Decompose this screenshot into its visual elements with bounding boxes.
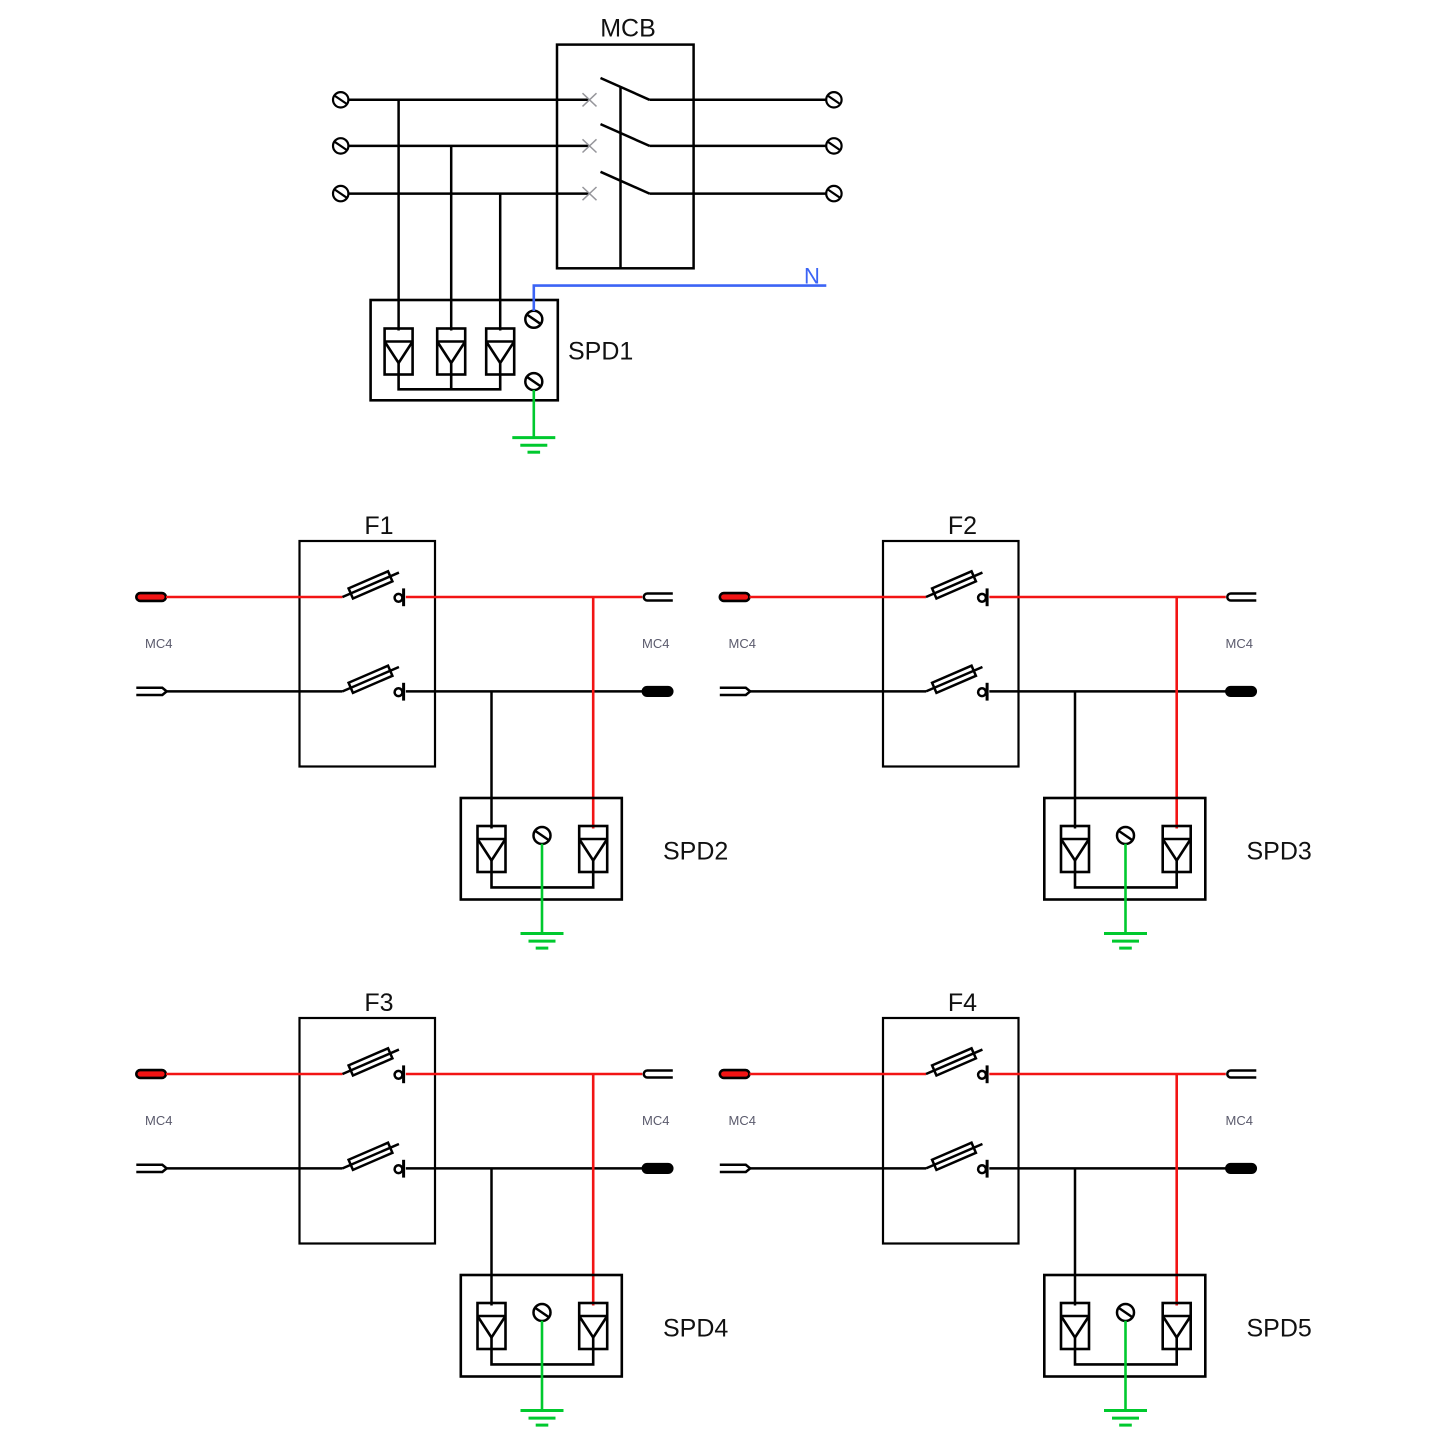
surge protector SPD4 box [461, 1275, 622, 1377]
SPD4 arrester element 2 [579, 1303, 607, 1349]
SPD5 earth screw terminal [1117, 1304, 1134, 1321]
svg-text:MC4: MC4 [145, 636, 172, 651]
fuse box F4 [883, 1018, 1019, 1244]
surge protector SPD3 box [1044, 798, 1205, 900]
MCB section [333, 92, 589, 201]
SPD4 earth screw terminal [534, 1304, 551, 1321]
wire black drop to SPD5 [1074, 1168, 1077, 1305]
SPD5 arrester element 2 [1163, 1303, 1191, 1349]
wire negative out of F2 [989, 690, 1226, 693]
wire negative out of F4 [989, 1167, 1226, 1170]
wire positive out (red) of F1 [406, 596, 643, 599]
MC4 connector plus (right) of F3 [644, 1071, 673, 1078]
SPD3 earth screw terminal [1117, 827, 1134, 844]
MC4 connector plus (left) of F4 [720, 1070, 750, 1078]
wire positive in (red) of F4 [750, 1073, 927, 1076]
ground symbol SPD3 [1104, 934, 1147, 949]
SPD4 bottom bus wire [492, 1349, 594, 1364]
MCB pole 1 fixed contact X [583, 93, 597, 106]
MC4 connector minus (left) of F2 [720, 688, 750, 695]
wire N (blue neutral) [534, 286, 827, 311]
wire negative out of F3 [406, 1167, 643, 1170]
fuse-switch F2b [924, 662, 987, 701]
svg-text:F2: F2 [948, 512, 977, 540]
wire negative in of F2 [750, 690, 927, 693]
wire MCB pole 3 output [650, 192, 827, 195]
wire red drop to SPD2 [592, 597, 595, 829]
SPD4 arrester element 1 [478, 1303, 506, 1349]
wire black drop to SPD2 [490, 691, 493, 828]
wire red drop to SPD4 [592, 1074, 595, 1306]
fuse-switch F1b [340, 662, 403, 701]
MC4 connector plus (left) of F1 [136, 593, 166, 601]
SPD1 neutral screw terminal [525, 311, 542, 328]
breaker MCB box [557, 45, 694, 269]
svg-text:MC4: MC4 [145, 1113, 172, 1128]
wire L3 input to MCB [349, 192, 590, 195]
wire positive in (red) of F1 [166, 596, 343, 599]
input terminal L2 [333, 138, 348, 153]
wire positive in (red) of F3 [166, 1073, 343, 1076]
fuse-switch F1a [340, 568, 403, 607]
MC4 connector minus (right) of F4 [1226, 1164, 1257, 1174]
svg-text:N: N [804, 264, 820, 289]
wire positive out (red) of F3 [406, 1073, 643, 1076]
SPD1 arrester element 1 [385, 329, 413, 375]
svg-text:F4: F4 [948, 989, 977, 1017]
output terminal T2 [826, 138, 841, 153]
ground symbol SPD5 [1104, 1411, 1147, 1426]
wire tap L3 down to SPD1 [499, 194, 502, 331]
svg-text:SPD5: SPD5 [1247, 1315, 1312, 1343]
SPD5 arrester element 1 [1061, 1303, 1089, 1349]
svg-text:MC4: MC4 [1226, 636, 1253, 651]
ground symbol SPD2 [521, 934, 564, 949]
wire positive out (red) of F4 [989, 1073, 1226, 1076]
ground symbol SPD1 [512, 438, 555, 453]
wire MCB pole 1 output [650, 99, 827, 102]
wire black drop to SPD4 [490, 1168, 493, 1305]
MCB pole 3 blade [601, 172, 650, 194]
wire SPD4 earth (green) [541, 1321, 544, 1411]
SPD3 arrester element 2 [1163, 826, 1191, 872]
wire negative in of F4 [750, 1167, 927, 1170]
MC4 connector minus (right) of F1 [642, 687, 673, 697]
wire tap L1 down to SPD1 [397, 100, 400, 331]
SPD1 earth screw terminal [525, 373, 542, 390]
svg-text:MC4: MC4 [1226, 1113, 1253, 1128]
MC4 connector plus (left) of F2 [720, 593, 750, 601]
wire positive in (red) of F2 [750, 596, 927, 599]
svg-text:SPD1: SPD1 [568, 338, 633, 366]
wire negative out of F1 [406, 690, 643, 693]
ground symbol SPD4 [521, 1411, 564, 1426]
wire SPD3 earth (green) [1124, 844, 1127, 934]
MC4 connector minus (left) of F1 [136, 688, 166, 695]
MCB pole 1 blade [601, 78, 650, 100]
svg-text:MCB: MCB [600, 15, 656, 43]
fuse box F2 [883, 541, 1019, 767]
SPD3 bottom bus wire [1075, 872, 1177, 887]
surge protector SPD1 box [371, 300, 558, 400]
fuse-switch F3b [340, 1139, 403, 1178]
svg-text:SPD4: SPD4 [663, 1315, 728, 1343]
wire negative in of F1 [166, 690, 343, 693]
svg-text:MC4: MC4 [729, 636, 756, 651]
MC4 connector plus (right) of F1 [644, 594, 673, 601]
output terminal T1 [826, 92, 841, 107]
SPD3 arrester element 1 [1061, 826, 1089, 872]
svg-text:MC4: MC4 [642, 1113, 669, 1128]
MCB pole 2 fixed contact X [583, 139, 597, 152]
wire black drop to SPD3 [1074, 691, 1077, 828]
svg-text:MC4: MC4 [729, 1113, 756, 1128]
wire L2 input to MCB [349, 145, 590, 148]
wire SPD2 earth (green) [541, 844, 544, 934]
surge protector SPD2 box [461, 798, 622, 900]
wire red drop to SPD5 [1175, 1074, 1178, 1306]
MC4 connector plus (right) of F4 [1227, 1071, 1256, 1078]
MCB mechanical tie bar [619, 87, 622, 269]
SPD1 arrester element 3 [486, 329, 514, 375]
MC4 connector minus (left) of F4 [720, 1165, 750, 1172]
MC4 connector plus (right) of F2 [1227, 594, 1256, 601]
fuse-switch F4a [924, 1045, 987, 1084]
wire negative in of F3 [166, 1167, 343, 1170]
SPD2 earth screw terminal [534, 827, 551, 844]
surge protector SPD5 box [1044, 1275, 1205, 1377]
SPD2 arrester element 2 [579, 826, 607, 872]
svg-text:SPD2: SPD2 [663, 838, 728, 866]
fuse-switch F3a [340, 1045, 403, 1084]
SPD5 bottom bus wire [1075, 1349, 1177, 1364]
fuse box F1 [300, 541, 436, 767]
output terminal T3 [826, 186, 841, 201]
MCB pole 2 blade [601, 124, 650, 146]
SPD1 bottom bus wire [399, 375, 501, 390]
MC4 connector minus (left) of F3 [136, 1165, 166, 1172]
svg-text:MC4: MC4 [642, 636, 669, 651]
wire SPD1 earth (green) [532, 390, 535, 438]
fuse-switch F2a [924, 568, 987, 607]
SPD2 bottom bus wire [492, 872, 594, 887]
wire L1 input to MCB [349, 99, 590, 102]
SPD2 arrester element 1 [478, 826, 506, 872]
wire positive out (red) of F2 [989, 596, 1226, 599]
svg-text:F3: F3 [364, 989, 393, 1017]
svg-text:F1: F1 [364, 512, 393, 540]
wire SPD5 earth (green) [1124, 1321, 1127, 1411]
fuse box F3 [300, 1018, 436, 1244]
MC4 connector minus (right) of F3 [642, 1164, 673, 1174]
MC4 connector plus (left) of F3 [136, 1070, 166, 1078]
fuse-switch F4b [924, 1139, 987, 1178]
wire tap L2 down to SPD1 [450, 146, 453, 331]
svg-text:SPD3: SPD3 [1247, 838, 1312, 866]
input terminal L1 [333, 92, 348, 107]
wire red drop to SPD3 [1175, 597, 1178, 829]
wire MCB pole 2 output [650, 145, 827, 148]
MCB pole 3 fixed contact X [583, 187, 597, 200]
SPD1 arrester element 2 [437, 329, 465, 375]
MC4 connector minus (right) of F2 [1226, 687, 1257, 697]
input terminal L3 [333, 186, 348, 201]
